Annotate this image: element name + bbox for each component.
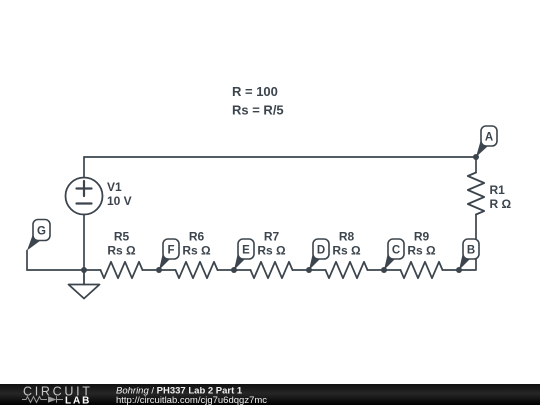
resistor R5 bbox=[101, 262, 143, 278]
svg-text:C: C bbox=[392, 245, 400, 257]
node flag E bbox=[234, 239, 254, 270]
node flag D bbox=[309, 239, 329, 270]
junction dot node D bbox=[306, 267, 312, 273]
wire V1 top lead bbox=[83, 157, 85, 178]
svg-text:Rs Ω: Rs Ω bbox=[107, 243, 136, 257]
svg-text:R5: R5 bbox=[114, 229, 130, 243]
wire node A to R1 top lead bbox=[475, 157, 477, 173]
resistor R9 bbox=[401, 262, 443, 278]
svg-text:Rs Ω: Rs Ω bbox=[407, 243, 436, 257]
svg-text:B: B bbox=[467, 245, 475, 257]
svg-text:R Ω: R Ω bbox=[490, 197, 512, 211]
svg-text:F: F bbox=[167, 245, 174, 257]
resistor R7 bbox=[251, 262, 293, 278]
svg-text:R8: R8 bbox=[339, 229, 355, 243]
node flag A bbox=[476, 126, 497, 157]
wire V1 bottom lead bbox=[83, 215, 85, 271]
wire segment B junction bbox=[443, 269, 460, 271]
svg-text:10 V: 10 V bbox=[107, 194, 132, 208]
wire bottom left to V1 junction bbox=[27, 269, 101, 271]
resistor R1 bbox=[468, 173, 484, 215]
svg-text:G: G bbox=[37, 226, 46, 238]
node flag F bbox=[159, 239, 179, 270]
svg-text:Rs = R/5: Rs = R/5 bbox=[232, 103, 284, 118]
node flag B bbox=[459, 239, 479, 270]
node flag C bbox=[384, 239, 404, 270]
wire node G vertical segment bbox=[26, 251, 28, 271]
junction dot node B bbox=[456, 267, 462, 273]
resistor R6 bbox=[176, 262, 218, 278]
wire top horizontal bbox=[84, 156, 476, 158]
svg-text:Rs Ω: Rs Ω bbox=[182, 243, 211, 257]
svg-text:R6: R6 bbox=[189, 229, 205, 243]
svg-text:D: D bbox=[317, 245, 325, 257]
svg-text:R1: R1 bbox=[490, 183, 506, 197]
junction dot node F bbox=[156, 267, 162, 273]
junction dot node A bbox=[473, 154, 479, 160]
resistor R8 bbox=[326, 262, 368, 278]
wire segment D junction bbox=[293, 269, 326, 271]
svg-text:http://circuitlab.com/cjg7u6dq: http://circuitlab.com/cjg7u6dqgz7mc bbox=[116, 395, 267, 405]
svg-text:A: A bbox=[485, 132, 493, 144]
svg-text:R7: R7 bbox=[264, 229, 280, 243]
ground bbox=[83, 270, 85, 285]
svg-text:Rs Ω: Rs Ω bbox=[332, 243, 361, 257]
wire segment F junction bbox=[143, 269, 176, 271]
junction dot V1 bottom bbox=[81, 267, 87, 273]
svg-text:Rs Ω: Rs Ω bbox=[257, 243, 286, 257]
CircuitLab logo resistor-diode squiggle bbox=[22, 396, 63, 403]
junction dot node C bbox=[381, 267, 387, 273]
node flag G bbox=[27, 220, 50, 251]
svg-text:V1: V1 bbox=[107, 180, 122, 194]
wire segment C junction bbox=[368, 269, 401, 271]
svg-text:E: E bbox=[242, 245, 250, 257]
wire R1 bottom to node B bbox=[459, 215, 476, 271]
svg-text:R = 100: R = 100 bbox=[232, 84, 278, 99]
svg-text:LAB: LAB bbox=[65, 396, 91, 405]
svg-text:R9: R9 bbox=[414, 229, 430, 243]
wire segment E junction bbox=[218, 269, 251, 271]
voltage source V1 bbox=[66, 178, 103, 215]
junction dot node E bbox=[231, 267, 237, 273]
